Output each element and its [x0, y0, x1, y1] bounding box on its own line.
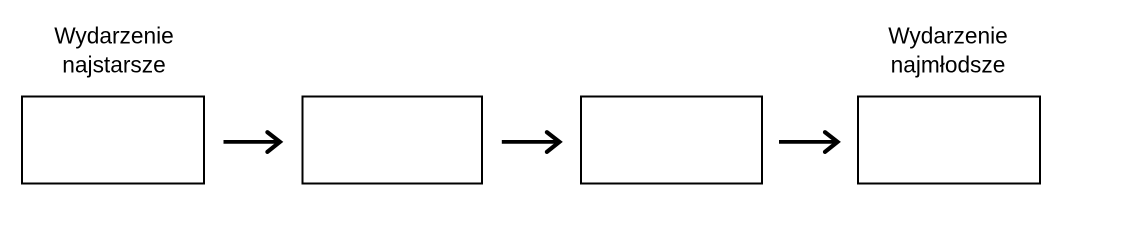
svg-text:najstarsze: najstarsze: [62, 51, 165, 77]
box 1 (Wydarzenie najstarsze): [22, 97, 204, 184]
arrow 2: [502, 132, 560, 152]
svg-text:Wydarzenie: Wydarzenie: [888, 23, 1008, 49]
box 2: [303, 97, 483, 184]
label: Wydarzenie najstarsze: [54, 23, 174, 78]
svg-text:najmłodsze: najmłodsze: [891, 51, 1006, 77]
label: Wydarzenie najmłodsze: [888, 23, 1008, 78]
box 4 (Wydarzenie najmłodsze): [858, 97, 1040, 184]
arrow 3: [779, 132, 838, 152]
arrow 1: [224, 132, 280, 152]
svg-text:Wydarzenie: Wydarzenie: [54, 23, 174, 49]
box 3: [581, 97, 762, 184]
